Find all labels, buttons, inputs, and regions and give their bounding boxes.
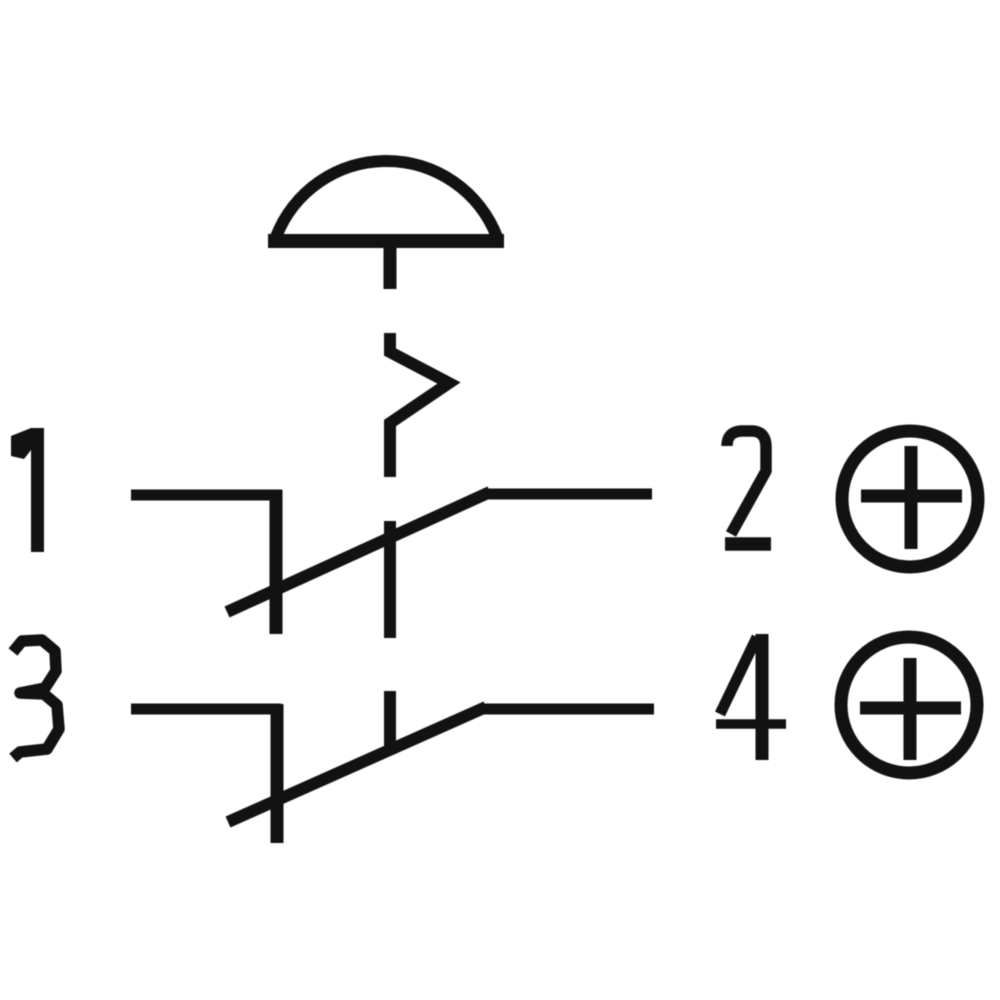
latching chevron on actuator linkage xyxy=(390,333,449,477)
fixed contact post of pole 1 xyxy=(270,490,283,634)
pin label 2 xyxy=(725,431,771,544)
actuator cap baseline xyxy=(268,234,504,248)
fixed contact post of pole 2 xyxy=(271,704,284,843)
moving contact blade of pole 2 xyxy=(228,707,486,822)
pushbutton actuator cap (mushroom head) xyxy=(276,161,497,237)
wire: terminal 1 lead xyxy=(131,490,282,501)
actuator dashed link segment B (through contact 1-2) xyxy=(384,521,396,638)
wire: terminal 2 lead xyxy=(484,489,652,500)
wire: terminal 4 lead xyxy=(480,704,654,715)
pin label 3 xyxy=(13,640,59,758)
actuator stem (dash) xyxy=(384,243,397,289)
wire: terminal 3 lead xyxy=(131,704,281,715)
screw terminal symbol at contact 4 xyxy=(841,637,977,773)
moving contact blade of pole 1 xyxy=(227,492,490,612)
pin label 4 xyxy=(716,634,786,760)
actuator dashed link segment C (through contact 3-4) xyxy=(384,691,396,754)
pin label 1 xyxy=(11,428,44,552)
screw terminal symbol at contact 2 xyxy=(842,431,978,567)
